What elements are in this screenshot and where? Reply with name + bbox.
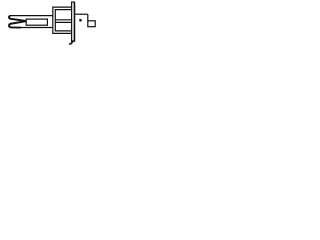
jack J1 insulator block (88, 21, 95, 27)
wire (tip contact drop) (87, 14, 89, 21)
plug P1 bottom blade (9, 21, 26, 27)
jack J1 sleeve bar right edge (thick) (74, 2, 76, 41)
wire (plug cord top conductor) (10, 15, 53, 17)
wire (plug cord bottom conductor) (10, 27, 53, 29)
jack J1 sleeve bar (72, 2, 75, 41)
wire (tip contact arm) (75, 13, 88, 15)
plug P1 body (26, 19, 47, 25)
jack J1 outer frame (53, 7, 72, 33)
jack J1 spring hook (69, 40, 73, 44)
jack J1 tip contact dot (79, 19, 82, 22)
plug P1 top blade (9, 16, 26, 21)
jack J1 middle spring (upper line) (55, 19, 71, 21)
jack J1 middle spring (lower line) (55, 21, 71, 23)
plug P1 bottom blade lower edge (10, 26, 21, 28)
jack J1 inner frame (55, 10, 71, 31)
